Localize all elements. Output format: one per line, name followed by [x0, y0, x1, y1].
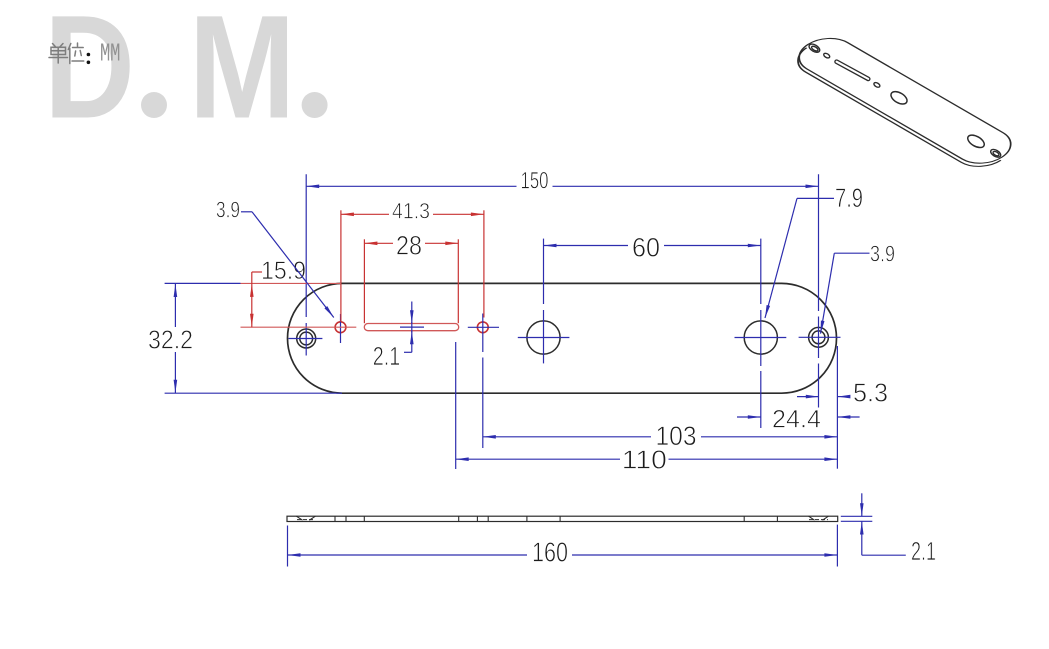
dim 60 [544, 245, 629, 247]
iso switch slot [834, 59, 870, 81]
iso small hole A [823, 52, 831, 59]
svg-text:3.9: 3.9 [216, 197, 240, 223]
svg-text:3.9: 3.9 [870, 241, 895, 267]
front view plate outline [288, 283, 837, 393]
leader 7.9 [797, 197, 834, 199]
svg-text:160: 160 [532, 537, 568, 568]
screw hole right [809, 327, 829, 347]
pot hole 1 [527, 321, 560, 354]
svg-text:MM: MM [100, 39, 121, 69]
svg-text:2.1: 2.1 [373, 341, 401, 371]
dim 103 [483, 436, 651, 438]
pot hole 2 [744, 321, 777, 354]
side view bar [287, 516, 838, 521]
screw hole right crosshair [799, 336, 841, 338]
dim 24.4 [737, 416, 761, 418]
svg-text:28: 28 [396, 231, 422, 261]
svg-text:M: M [189, 0, 296, 150]
dim 150 extension left [305, 174, 307, 317]
svg-text:D: D [44, 0, 135, 150]
pot hole 1 crosshair [518, 337, 570, 339]
svg-text:110: 110 [622, 445, 667, 475]
iso screw hole left [808, 42, 821, 54]
screw hole left [297, 329, 316, 348]
iso pot hole right [966, 133, 987, 151]
dim 5.3 [836, 346, 838, 469]
svg-text:60: 60 [632, 233, 660, 263]
dim 150 [306, 185, 516, 187]
svg-text:24.4: 24.4 [772, 406, 821, 434]
dim 110 [455, 342, 457, 469]
svg-text:32.2: 32.2 [148, 325, 193, 355]
screw hole left crosshair [289, 338, 323, 340]
leader 3.9 left [241, 211, 252, 213]
mount hole 3.9 right crosshair [468, 326, 499, 328]
side view countersink left [296, 516, 302, 520]
watermark D.M. [44, 0, 328, 150]
units label 单位: MM [49, 43, 84, 64]
switch slot centerline [400, 326, 424, 328]
dim 32.2 [165, 282, 241, 284]
iso pot hole middle [889, 89, 909, 106]
dim 28 (red) [363, 239, 365, 323]
svg-text:7.9: 7.9 [835, 183, 863, 213]
iso small hole B [873, 82, 881, 89]
dim 15.9 (red) [241, 282, 342, 284]
dim 160 [287, 526, 289, 567]
svg-text:5.3: 5.3 [853, 378, 888, 408]
mount hole 3.9 left (red) [335, 322, 346, 333]
mount hole 3.9 right (red) [477, 322, 488, 333]
svg-text:15.9: 15.9 [261, 257, 306, 285]
svg-text:41.3: 41.3 [392, 199, 430, 224]
iso view plate outline [788, 31, 1023, 170]
iso screw hole right [989, 148, 1002, 159]
dim 2.1 thickness [841, 515, 873, 517]
mount hole 3.9 left crosshair [340, 314, 342, 343]
switch slot (red) [364, 324, 458, 331]
dim 2.1 slot height [411, 302, 413, 324]
leader 3.9 right [834, 252, 869, 254]
iso view thickness edge [786, 48, 1000, 174]
svg-text:150: 150 [521, 168, 549, 195]
side view countersink right [809, 516, 815, 520]
pot hole 2 crosshair [735, 337, 787, 339]
svg-text:2.1: 2.1 [911, 536, 936, 566]
dim 41.3 (red) [340, 210, 342, 322]
side view hole ticks [334, 516, 336, 521]
